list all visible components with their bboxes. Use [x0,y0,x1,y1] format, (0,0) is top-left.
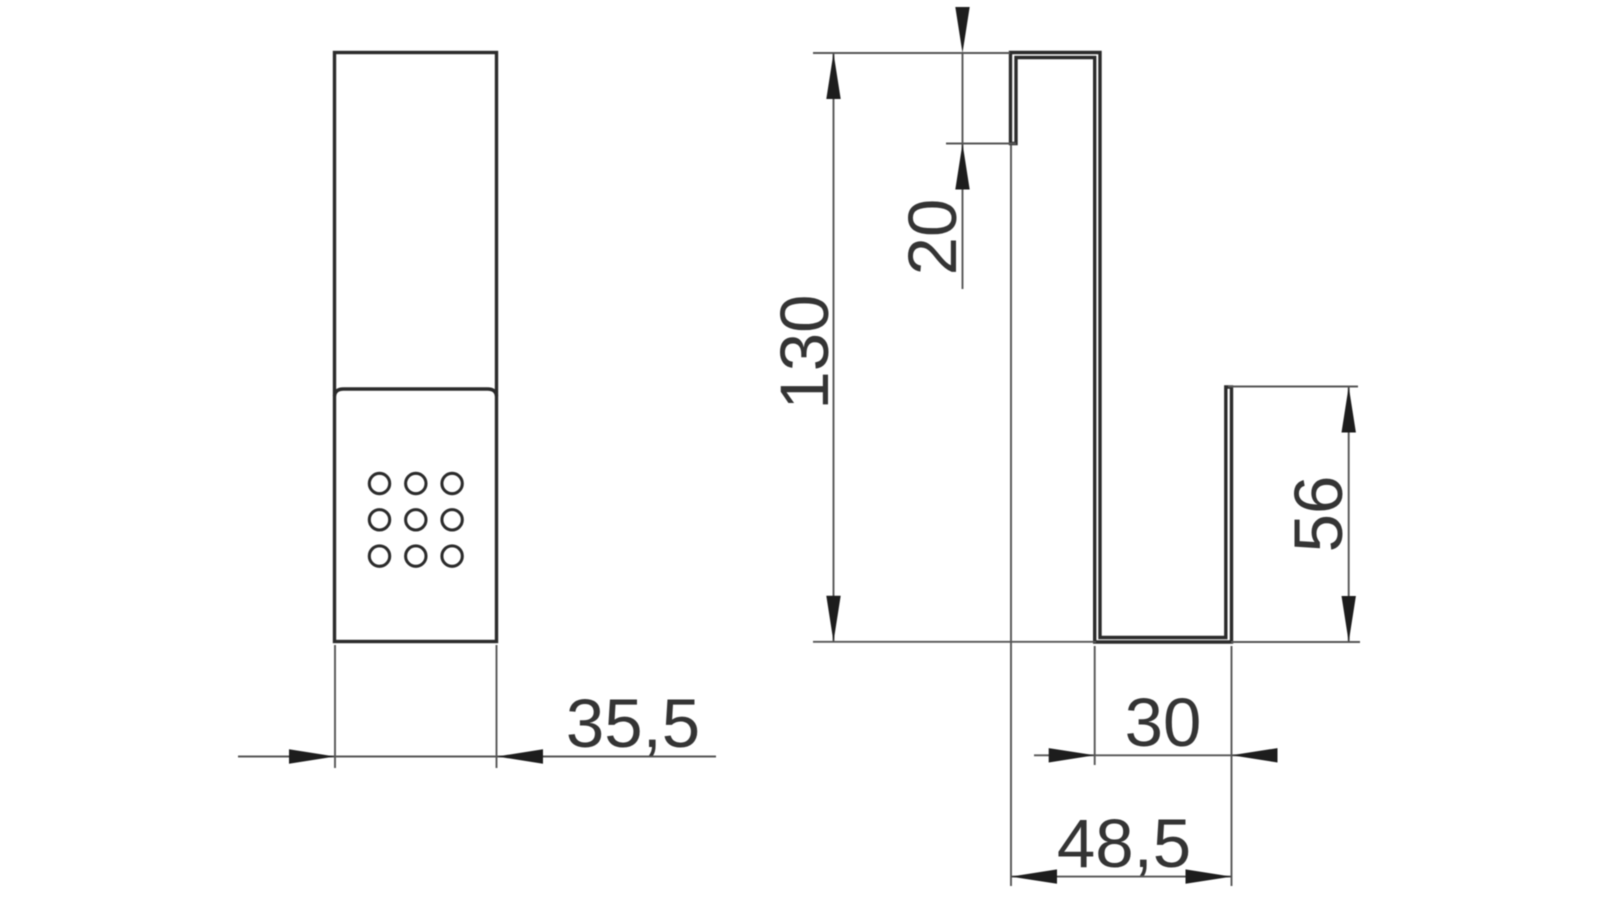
svg-text:30: 30 [1125,684,1202,761]
svg-text:56: 56 [1280,476,1357,553]
svg-text:20: 20 [894,199,971,276]
svg-text:130: 130 [766,294,843,409]
svg-text:35,5: 35,5 [566,685,700,762]
svg-text:48,5: 48,5 [1057,805,1191,882]
